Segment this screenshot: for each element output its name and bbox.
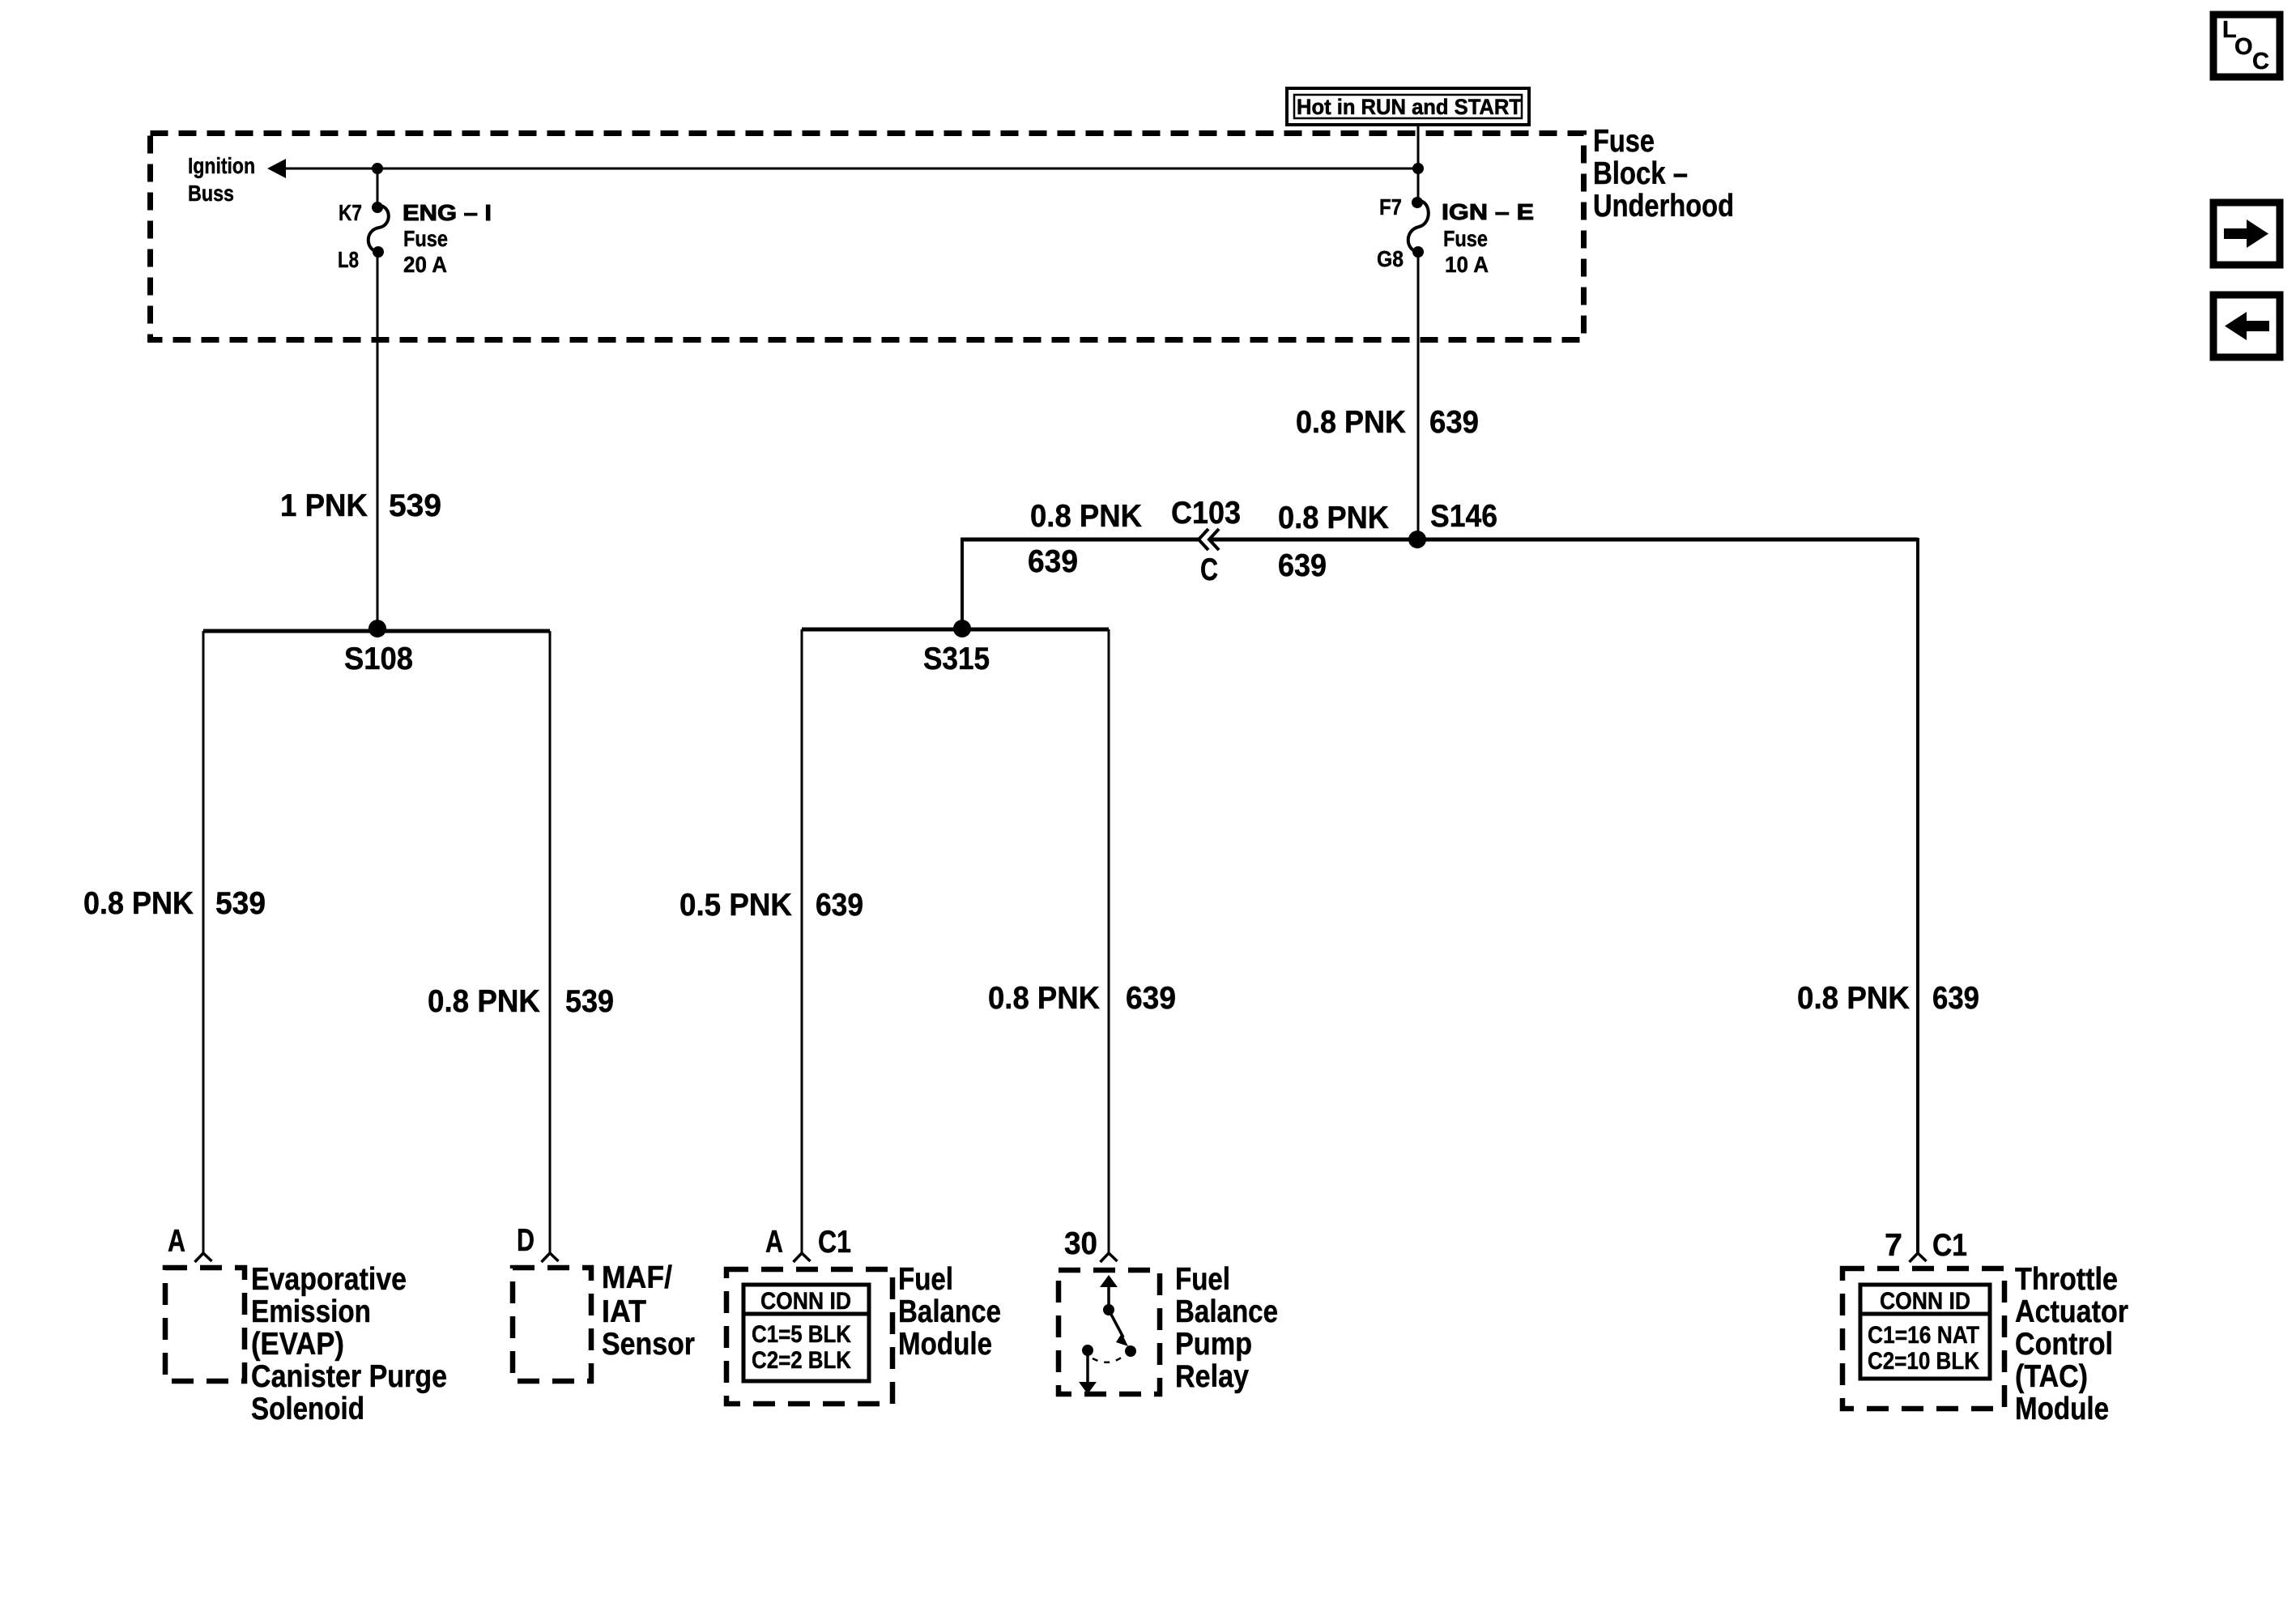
svg-text:1 PNK: 1 PNK xyxy=(280,488,368,523)
fuse IGN-E 10A (F7/G8) xyxy=(1377,194,1534,277)
svg-text:7: 7 xyxy=(1885,1228,1902,1263)
EVAP dashed box xyxy=(165,1268,245,1381)
svg-text:10 A: 10 A xyxy=(1445,252,1489,277)
svg-text:Actuator: Actuator xyxy=(2015,1294,2128,1329)
svg-text:C2=2 BLK: C2=2 BLK xyxy=(752,1347,851,1374)
wire: corner S146-left down to S315 xyxy=(961,538,964,629)
svg-text:G8: G8 xyxy=(1377,246,1404,271)
label: 0.8 PNK 639 relay drop xyxy=(988,981,1176,1016)
svg-text:S315: S315 xyxy=(923,642,990,676)
Fuel Balance Module dashed box xyxy=(726,1269,892,1404)
svg-text:0.5 PNK: 0.5 PNK xyxy=(679,888,792,923)
CONN ID table (TAC) xyxy=(1860,1285,1990,1379)
pin 30 terminal chevron (relay) xyxy=(1101,1253,1118,1262)
wire: S108 trunk xyxy=(203,629,550,633)
svg-text:C1=5 BLK: C1=5 BLK xyxy=(752,1321,851,1348)
svg-text:K7: K7 xyxy=(339,200,362,225)
node: S315 splice xyxy=(953,620,971,637)
svg-text:Canister Purge: Canister Purge xyxy=(251,1359,447,1394)
svg-text:S146: S146 xyxy=(1430,499,1497,534)
svg-text:Fuel: Fuel xyxy=(1175,1262,1230,1297)
wire: S146 trunk right of C103 xyxy=(1211,538,1918,542)
svg-text:639: 639 xyxy=(1028,544,1078,579)
svg-text:Fuse: Fuse xyxy=(403,226,448,251)
label: 0.8 PNK 539 MAF drop xyxy=(428,984,614,1019)
label: Throttle Actuator Control (TAC) Module xyxy=(2015,1262,2128,1426)
label: 0.8 PNK 639 left of C103 xyxy=(1028,499,1142,579)
relay switch symbol xyxy=(1079,1275,1136,1394)
svg-text:Pump: Pump xyxy=(1175,1327,1252,1362)
svg-text:Sensor: Sensor xyxy=(602,1327,695,1362)
svg-text:D: D xyxy=(517,1223,535,1258)
svg-text:Module: Module xyxy=(898,1327,992,1362)
svg-text:C1: C1 xyxy=(1932,1228,1967,1263)
svg-text:539: 539 xyxy=(389,488,441,523)
svg-text:F7: F7 xyxy=(1379,194,1402,220)
label: 0.8 PNK 639 TAC drop xyxy=(1797,981,1979,1016)
label: Fuel Balance Module xyxy=(898,1262,1001,1362)
pin D terminal chevron (MAF) xyxy=(542,1253,559,1262)
svg-text:C: C xyxy=(2252,49,2269,75)
MAF dashed box xyxy=(513,1268,591,1381)
label: Ignition Buss xyxy=(188,153,255,206)
wire: S315 left drop to FBM xyxy=(801,629,803,1252)
fuse ENG-I 20A (K7/L8) xyxy=(338,200,492,277)
svg-text:539: 539 xyxy=(565,984,614,1019)
wire: S315 trunk xyxy=(802,628,1109,632)
svg-text:0.8 PNK: 0.8 PNK xyxy=(428,984,540,1019)
svg-text:CONN ID: CONN ID xyxy=(760,1288,851,1315)
label: 0.8 PNK 639 on hot drop xyxy=(1296,405,1479,440)
label: Evaporative Emission (EVAP) Canister Purge Solenoid xyxy=(251,1262,447,1426)
svg-text:Control: Control xyxy=(2015,1327,2113,1362)
svg-text:Fuel: Fuel xyxy=(898,1262,953,1297)
svg-text:CONN ID: CONN ID xyxy=(1880,1288,1970,1315)
svg-text:L8: L8 xyxy=(338,247,359,272)
svg-text:0.8 PNK: 0.8 PNK xyxy=(988,981,1100,1016)
wire: L8 down to S108 xyxy=(377,252,379,631)
node: S146 splice xyxy=(1408,531,1426,548)
pin A terminal chevron (EVAP) xyxy=(195,1253,212,1262)
connector C103 inline chevrons xyxy=(1171,496,1241,587)
svg-text:IAT: IAT xyxy=(602,1294,646,1329)
svg-text:C1: C1 xyxy=(818,1225,851,1260)
svg-text:(TAC): (TAC) xyxy=(2015,1359,2088,1394)
wire: corner S146-right down to TAC xyxy=(1916,538,1919,1252)
svg-text:639: 639 xyxy=(1429,405,1479,440)
svg-text:S108: S108 xyxy=(344,642,413,676)
CONN ID table (FBM) xyxy=(743,1285,869,1381)
wire: ignition buss horizontal with arrowhead xyxy=(267,159,1418,178)
svg-text:Emission: Emission xyxy=(251,1294,371,1329)
svg-text:Hot in RUN and START: Hot in RUN and START xyxy=(1297,95,1522,119)
svg-text:O: O xyxy=(2234,34,2253,60)
wire: hot feed down to F7 xyxy=(1417,125,1420,203)
TAC dashed box xyxy=(1842,1268,2004,1409)
svg-text:0.8 PNK: 0.8 PNK xyxy=(83,886,194,921)
svg-text:A: A xyxy=(168,1224,185,1259)
icon: right arrow xyxy=(2213,203,2280,265)
svg-text:Evaporative: Evaporative xyxy=(251,1262,407,1297)
node: S108 splice xyxy=(368,620,386,637)
svg-text:Ignition: Ignition xyxy=(188,153,255,178)
label: Fuel Balance Pump Relay xyxy=(1175,1262,1278,1394)
Fuel Balance Pump Relay dashed box xyxy=(1059,1270,1160,1394)
svg-text:(EVAP): (EVAP) xyxy=(251,1327,344,1362)
svg-text:C1=16 NAT: C1=16 NAT xyxy=(1868,1322,1979,1349)
svg-text:Solenoid: Solenoid xyxy=(251,1392,364,1426)
pin 7 C1 terminal chevron (TAC) xyxy=(1910,1253,1927,1262)
svg-text:Throttle: Throttle xyxy=(2015,1262,2118,1297)
node: junction at K7 drop xyxy=(372,163,383,174)
LOC page icon xyxy=(2213,15,2280,77)
wire: S108 left drop to EVAP xyxy=(202,631,205,1252)
svg-text:Block –: Block – xyxy=(1593,156,1688,191)
icon: left arrow xyxy=(2213,295,2280,357)
label: 0.5 PNK 639 xyxy=(679,888,863,923)
svg-text:0.8 PNK: 0.8 PNK xyxy=(1296,405,1406,440)
svg-text:C103: C103 xyxy=(1171,496,1241,531)
svg-text:Relay: Relay xyxy=(1175,1359,1249,1394)
label: 1 PNK 539 xyxy=(280,488,441,523)
svg-text:C2=10 BLK: C2=10 BLK xyxy=(1868,1348,1979,1375)
svg-text:ENG – I: ENG – I xyxy=(403,200,492,225)
svg-text:Balance: Balance xyxy=(1175,1294,1278,1329)
svg-text:0.8 PNK: 0.8 PNK xyxy=(1797,981,1910,1016)
svg-text:0.8 PNK: 0.8 PNK xyxy=(1278,501,1389,535)
svg-text:IGN – E: IGN – E xyxy=(1442,199,1534,224)
label: 0.8 PNK 639 right of C103 xyxy=(1278,501,1389,583)
svg-text:Fuse: Fuse xyxy=(1443,226,1488,251)
fuse block underhood dashed outline xyxy=(151,134,1584,340)
svg-text:A: A xyxy=(765,1225,783,1260)
label: 0.8 PNK 539 EVAP drop xyxy=(83,886,266,921)
wire: S315 right drop to relay xyxy=(1108,629,1110,1252)
svg-text:Balance: Balance xyxy=(898,1294,1001,1329)
svg-text:639: 639 xyxy=(1278,548,1327,583)
label: Fuse Block - Underhood xyxy=(1593,124,1734,224)
svg-text:639: 639 xyxy=(1932,981,1979,1016)
svg-text:639: 639 xyxy=(816,888,863,923)
wire: S146 trunk left of C103 xyxy=(961,538,1199,542)
svg-text:Module: Module xyxy=(2015,1392,2109,1426)
svg-text:30: 30 xyxy=(1064,1226,1097,1261)
label: MAF/IAT Sensor xyxy=(602,1260,695,1362)
svg-text:Fuse: Fuse xyxy=(1593,124,1655,159)
svg-text:Buss: Buss xyxy=(188,181,234,206)
svg-text:20 A: 20 A xyxy=(403,252,447,277)
header box: Hot in RUN and START xyxy=(1287,88,1529,125)
svg-text:0.8 PNK: 0.8 PNK xyxy=(1030,499,1142,534)
wire: G8 down to S146 xyxy=(1417,252,1420,539)
svg-text:C: C xyxy=(1200,552,1218,587)
wire: down to K7 xyxy=(377,168,379,207)
node: junction ignition buss tee xyxy=(1412,163,1424,174)
svg-text:639: 639 xyxy=(1126,981,1176,1016)
wire: S108 right drop to MAF xyxy=(549,631,552,1252)
svg-text:Underhood: Underhood xyxy=(1593,189,1734,224)
svg-text:539: 539 xyxy=(215,886,266,921)
pin A C1 terminal chevron (FBM) xyxy=(794,1253,811,1262)
svg-text:MAF/: MAF/ xyxy=(602,1260,672,1295)
